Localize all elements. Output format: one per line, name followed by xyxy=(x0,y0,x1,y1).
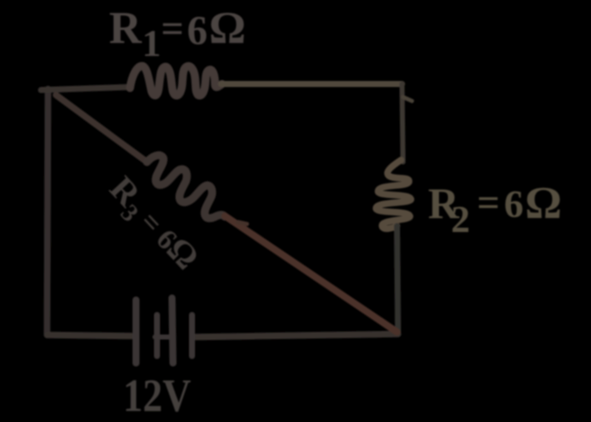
resistor R2 (coil) xyxy=(376,160,411,229)
label R1 = 6 Ohm xyxy=(109,2,246,65)
wire diagonal upper xyxy=(56,95,147,162)
battery B1 plate long left xyxy=(133,300,140,363)
label R2 = 6 Ohm xyxy=(428,177,562,241)
svg-text:R: R xyxy=(109,3,142,53)
svg-text:Ω: Ω xyxy=(525,177,562,228)
svg-text:=: = xyxy=(477,180,500,225)
svg-text:2: 2 xyxy=(451,199,470,241)
wire top-left to left-bottom (left side) xyxy=(47,89,48,335)
wire bottom left segment xyxy=(48,335,131,336)
wire bottom right segment xyxy=(196,334,398,337)
node nub at top-right xyxy=(403,97,412,101)
resistor R1 xyxy=(130,66,222,96)
node nub on diagonal xyxy=(238,222,247,224)
battery B1 plate short left xyxy=(154,315,160,356)
svg-text:=: = xyxy=(161,6,184,51)
label R3 = 6 Ohm (rotated along diagonal) xyxy=(98,169,207,281)
wire right side upper xyxy=(402,84,403,162)
svg-text:R3 = 6Ω: R3 = 6Ω xyxy=(98,169,207,281)
battery B1 crossbar xyxy=(155,335,172,340)
battery B1 plate short right xyxy=(189,315,195,356)
resistor R3 (diagonal squiggle) xyxy=(140,149,234,226)
svg-text:12V: 12V xyxy=(123,370,191,422)
svg-text:1: 1 xyxy=(142,23,161,65)
wire top side right segment xyxy=(221,81,402,87)
svg-text:6: 6 xyxy=(504,183,524,226)
wire top side left segment xyxy=(41,87,131,90)
wire right side lower xyxy=(397,226,398,333)
battery B1 plate long right xyxy=(172,298,173,363)
svg-text:Ω: Ω xyxy=(209,2,246,53)
wire diagonal lower xyxy=(225,216,397,332)
svg-text:6: 6 xyxy=(187,7,208,53)
